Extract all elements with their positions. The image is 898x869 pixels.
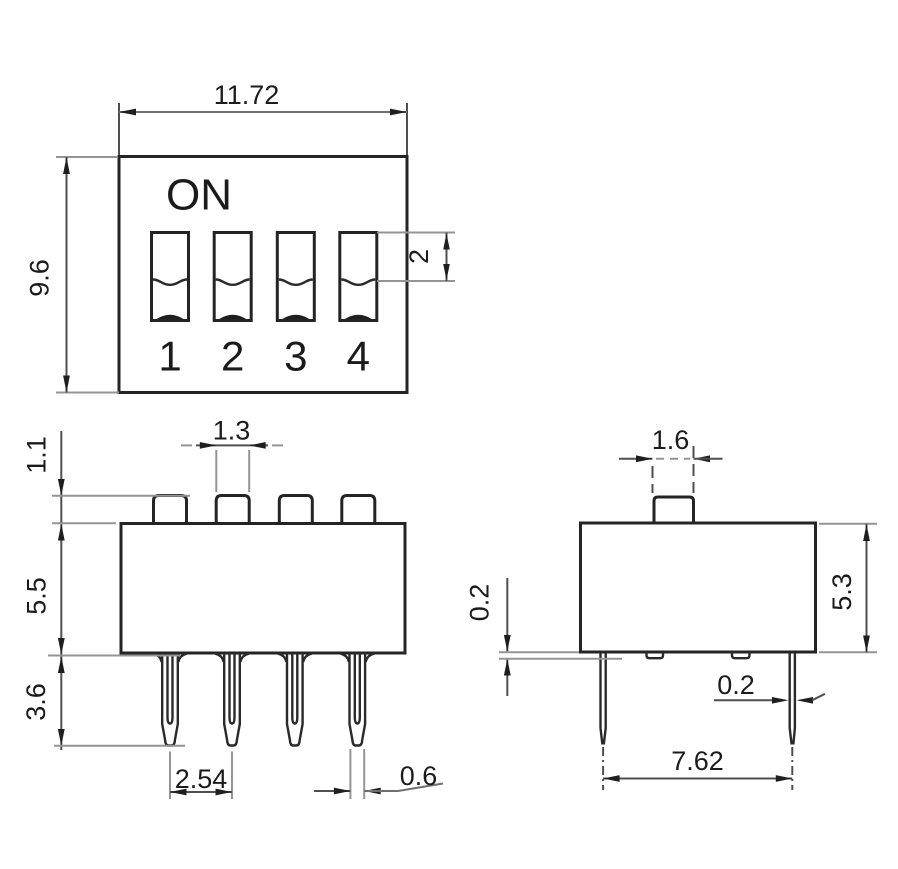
dim 5.5 top arrow (up): [58, 524, 65, 541]
dim 9.6 bottom arrow: [63, 376, 70, 393]
standoff tab left: [647, 652, 664, 658]
dim 7.62 right arrow: [776, 775, 793, 782]
pin 4 inner channel: [355, 653, 360, 724]
dim 9.6 top extension line: [56, 156, 117, 158]
dim 1.3 right arrow: [249, 442, 266, 449]
pin 4 outer outline: [350, 653, 366, 746]
switch slot 2 slider bottom shading: [219, 315, 246, 319]
standoff tab right: [732, 652, 750, 658]
dim 2.54 right arrow: [216, 789, 233, 796]
svg-text:1.1: 1.1: [22, 436, 52, 474]
top view body outline: [119, 157, 407, 393]
side view body outline: [581, 523, 816, 652]
pin 4 left shoulder fillet: [340, 654, 349, 662]
front view body outline: [121, 524, 405, 654]
dim 2.54 right extension line: [231, 752, 233, 800]
svg-text:1.6: 1.6: [652, 425, 690, 455]
pin 1 inner channel: [168, 653, 173, 724]
dim 1.1 down arrow: [58, 479, 65, 496]
dim 1.6 left arrow: [636, 455, 653, 462]
dim 3.6 top arrow (up): [58, 657, 65, 674]
switch slot 2 slider top wavy line: [216, 280, 250, 285]
pin 3 right shoulder fillet: [303, 654, 312, 662]
dim 1.3 right extension line: [248, 450, 250, 492]
dim 1.6 right extension line (dashed): [693, 446, 695, 493]
body-bottom extension line: [499, 651, 579, 653]
switch slot 1 outline: [152, 233, 189, 321]
svg-text:2.54: 2.54: [175, 764, 228, 794]
dim 2 dimension line: [446, 233, 448, 282]
switch slot 2 outline: [214, 233, 251, 321]
TOP VIEW GROUP: [119, 157, 407, 393]
svg-text:ON: ON: [166, 171, 232, 220]
svg-text:3.6: 3.6: [21, 683, 51, 721]
pin-tip extension line: [54, 745, 185, 747]
dim 7.62 right centerline extension: [791, 747, 793, 790]
dim 5.3 bottom arrow: [863, 636, 870, 653]
dim 1.6 right arrow: [694, 455, 711, 462]
DIMENSION 0.6 (pin width): [314, 749, 443, 799]
DIMENSION 2.54 (pin pitch): [170, 752, 232, 800]
pin 1 left shoulder fillet: [153, 654, 162, 662]
side actuator: [654, 497, 694, 523]
dim 0.6 left extension line: [349, 749, 351, 799]
svg-text:7.62: 7.62: [671, 746, 724, 776]
switch slot 4 slider top wavy line: [341, 280, 375, 285]
dim 9.6 top arrow: [63, 157, 70, 174]
actuator bump 2: [216, 496, 249, 524]
dim 0.6 right extension line: [363, 749, 365, 799]
dim 1.6 right tail: [694, 458, 723, 460]
dim 0.6 left arrow: [334, 788, 351, 795]
dim 11.72 right extension line: [406, 103, 408, 155]
SIDE VIEW GROUP: [581, 497, 816, 745]
dim 0.2 pin left arrow: [772, 697, 789, 704]
svg-text:5.3: 5.3: [827, 573, 857, 611]
dim 1.6 left extension line (dashed): [652, 466, 654, 493]
pin 4 right shoulder fillet: [366, 654, 375, 662]
dim 0.2 pin right tail: [812, 694, 825, 701]
dim 9.6 dimension line: [66, 157, 68, 393]
svg-text:3: 3: [284, 333, 307, 380]
dim 1.3 dimension line: [196, 444, 268, 446]
DIMENSION 1.6 (actuator width): [619, 425, 723, 493]
svg-text:0.6: 0.6: [400, 761, 438, 791]
pin 2 inner channel: [230, 653, 235, 724]
dim 5.3 dimension line: [866, 524, 868, 653]
switch slot 4 slider bottom shading: [345, 315, 372, 319]
dim 2 up arrow: [443, 234, 450, 250]
DIMENSION 7.62 (pin spacing): [603, 746, 792, 790]
svg-text:2: 2: [221, 333, 244, 380]
dim 2.54 left arrow: [170, 789, 187, 796]
dim 2 lower extension line: [377, 280, 455, 282]
dim 2.54 dimension line: [170, 791, 232, 793]
dim 0.2 pin right arrow: [797, 697, 814, 704]
svg-text:4: 4: [347, 333, 370, 380]
svg-text:0.2: 0.2: [465, 584, 495, 622]
svg-text:1: 1: [158, 333, 181, 380]
svg-text:1.3: 1.3: [213, 416, 251, 446]
DIMENSIONS 1.1 / 5.5 / 3.6 (left stack of front view): [21, 431, 190, 750]
dim 7.62 dimension line: [603, 778, 792, 780]
dim 1.3 left extension line: [215, 450, 217, 492]
actuator bump 1: [154, 496, 187, 524]
dim 1.3 right tail dash: [272, 444, 283, 446]
dim 0.2 up arrow: [504, 659, 511, 676]
dim 1.3 left tail dash: [181, 444, 192, 446]
DIMENSION 11.72 (top width): [119, 80, 407, 155]
dim 0.2 down arrow: [504, 635, 511, 652]
dim 2.54 left extension line: [169, 752, 171, 800]
switch slot 4 outline: [340, 233, 377, 321]
dim 1.6 left tail: [619, 458, 653, 460]
DIMENSION 0.2 (standoff height, left side): [465, 578, 623, 696]
dim 2 down arrow: [443, 264, 450, 280]
svg-text:2: 2: [404, 249, 434, 264]
actuator bump 4: [342, 496, 375, 524]
dim 3.6 bottom arrow (down): [58, 729, 65, 746]
dim 5.3 bottom extension line: [819, 651, 877, 653]
pin 2 right shoulder fillet: [240, 654, 249, 662]
dim 11.72 right arrow: [390, 109, 407, 116]
DIMENSION 2 (slider travel, right of top view): [377, 233, 455, 282]
side pin left: [601, 653, 606, 745]
dim 2 upper extension line: [377, 232, 455, 234]
pin 3 outer outline: [287, 653, 303, 746]
dim 1.6 middle dashed line: [656, 458, 690, 460]
pin 3 left shoulder fillet: [278, 654, 287, 662]
DIMENSION 1.3 (bump width, top of front view): [181, 416, 283, 493]
actuator bump 3: [279, 496, 312, 524]
standoff-bottom extension line: [499, 658, 622, 660]
dim 7.62 left arrow: [603, 775, 620, 782]
body-top extension line: [52, 522, 116, 524]
DIMENSION 5.3 (body height, right side): [819, 524, 877, 653]
dim 0.2 pin left tail: [714, 699, 773, 701]
dim 1.3 left arrow: [200, 442, 217, 449]
dim 0.6 left tail: [314, 790, 350, 792]
seating-plane extension line: [48, 655, 180, 657]
side pin right: [790, 653, 795, 745]
left dimension line vertical: [60, 431, 62, 750]
FRONT VIEW GROUP: [121, 496, 405, 746]
switch slot 3 slider bottom shading: [282, 315, 309, 319]
svg-text:11.72: 11.72: [214, 80, 280, 110]
pin 2 outer outline: [224, 653, 240, 746]
switch slot 3 slider top wavy line: [279, 280, 313, 285]
dim 7.62 left centerline extension: [602, 747, 604, 790]
dim 0.6 leader line: [364, 784, 443, 792]
dim 0.6 right arrow: [364, 788, 381, 795]
dim 11.72 left arrow: [119, 109, 136, 116]
svg-text:9.6: 9.6: [25, 259, 55, 297]
pin 2 left shoulder fillet: [215, 654, 224, 662]
dim 5.5 bottom arrow (down): [58, 638, 65, 655]
switch slot 3 outline: [277, 233, 314, 321]
dim 5.3 top extension line: [819, 523, 877, 525]
dim 0.2 dimension line upper: [506, 578, 508, 652]
pin 1 right shoulder fillet: [178, 654, 187, 662]
svg-text:5.5: 5.5: [22, 577, 52, 615]
svg-text:0.2: 0.2: [717, 670, 755, 700]
dim 0.2 dimension line lower: [506, 659, 508, 696]
DIMENSION 9.6 (left height): [25, 157, 120, 393]
dim 9.6 bottom extension line: [56, 392, 119, 394]
switch slot 1 slider top wavy line: [153, 280, 187, 285]
dim 5.3 top arrow: [863, 524, 870, 541]
DIMENSION 0.2 (pin thickness, bottom middle): [714, 670, 825, 704]
pin 1 outer outline: [162, 653, 178, 746]
switch slot 1 slider bottom shading: [157, 315, 184, 319]
dim 11.72 left extension line: [118, 103, 120, 155]
pin 3 inner channel: [292, 653, 297, 724]
dim 11.72 dimension line: [119, 111, 407, 113]
bump-top extension line: [52, 495, 190, 497]
